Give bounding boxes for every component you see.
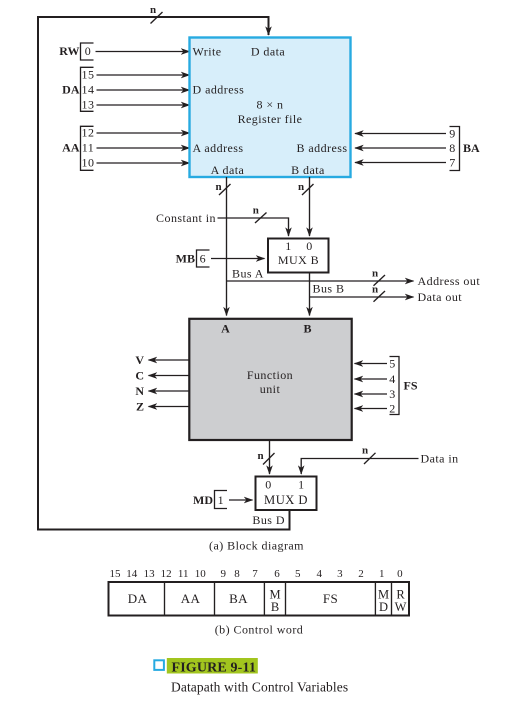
svg-text:D: D [379,600,388,614]
svg-text:8 × n: 8 × n [256,98,283,112]
svg-text:0: 0 [265,478,271,492]
wire C flag [149,375,191,377]
bracket DA bits 15-13 [81,67,94,111]
svg-text:Address out: Address out [418,274,481,288]
wire Bus B to Data out [310,296,414,298]
wire BA bit 9 to B address [355,133,446,135]
svg-text:11: 11 [82,140,94,154]
svg-text:Bus B: Bus B [313,281,345,295]
svg-text:6: 6 [274,568,280,580]
wire Data in to MUX D input 1 [301,459,418,475]
wire B data to MUX B input 0 [309,177,311,236]
svg-text:(a) Block diagram: (a) Block diagram [209,539,304,553]
svg-text:5: 5 [295,568,301,580]
svg-text:Constant in: Constant in [156,211,216,225]
wire AA bit 12 to A address [97,132,190,134]
wire Constant in to MUX B input 1 [218,218,289,236]
svg-text:n: n [150,4,156,16]
svg-text:9: 9 [221,568,227,580]
svg-text:DA: DA [62,82,80,96]
svg-text:FS: FS [404,379,418,393]
svg-text:DA: DA [128,591,148,606]
wire A data to Function unit (Bus A) [226,177,228,316]
svg-text:3: 3 [337,568,343,580]
field RW (stacked) [395,587,407,614]
bus slash n on Function unit output [257,450,274,465]
svg-text:2: 2 [389,402,395,416]
wire AA bit 11 to A address [97,147,190,149]
svg-text:14: 14 [82,82,95,96]
mux MUX B [268,239,329,273]
field MB (stacked) [269,587,280,614]
svg-text:0: 0 [306,239,312,253]
field divider MB|FS [285,582,287,616]
wire AA bit 10 to A address [97,162,190,164]
svg-text:7: 7 [449,156,455,170]
svg-text:C: C [135,369,144,383]
wire FS bit 5 [355,363,388,365]
svg-text:B: B [271,600,279,614]
svg-text:FIGURE 9-11: FIGURE 9-11 [172,660,257,675]
bus slash n on Address out [372,267,385,285]
svg-text:D data: D data [251,45,286,59]
svg-text:unit: unit [260,382,281,396]
bus slash n on Data in [362,444,376,464]
svg-text:n: n [257,450,263,462]
svg-text:1: 1 [218,493,224,507]
svg-text:Bus D: Bus D [252,513,285,527]
svg-text:6: 6 [200,252,206,266]
svg-text:5: 5 [389,357,395,371]
wire BA bit 8 to B address [355,147,446,149]
svg-text:AA: AA [181,591,201,606]
svg-text:MB: MB [176,252,195,266]
function unit block [189,319,351,440]
svg-text:15: 15 [82,67,95,81]
wire N flag [149,390,191,392]
wire MB select to MUX B [211,258,265,260]
svg-text:D address: D address [193,83,245,97]
svg-text:14: 14 [126,568,138,580]
bracket FS bits 5-2 [390,357,400,415]
svg-text:BA: BA [463,141,480,155]
svg-text:Register file: Register file [238,112,303,126]
svg-text:MUX B: MUX B [278,253,319,267]
wire Bus A to Address out [227,280,414,282]
register file block [190,38,351,178]
svg-text:n: n [372,267,378,279]
svg-text:W: W [395,600,407,614]
svg-text:Data out: Data out [418,290,463,304]
svg-text:7: 7 [252,568,258,580]
bracket BA bits 9-7 [450,127,460,171]
bracket MB bit 6 [197,250,210,267]
svg-text:1: 1 [285,239,291,253]
wire Z flag [149,406,191,408]
figure marker cyan square [154,660,164,670]
bus slash n on Data out [372,283,385,301]
svg-text:A data: A data [211,163,245,177]
bracket AA bits 12-10 [81,126,94,170]
wire MD select to MUX D [229,499,253,501]
wire FS bit 2 [355,408,388,410]
svg-text:11: 11 [178,568,189,580]
bus slash n on Constant in [253,205,267,223]
mux MUX D [256,477,317,511]
svg-text:0: 0 [397,568,403,580]
svg-text:9: 9 [449,127,455,141]
svg-text:10: 10 [195,568,207,580]
bus slash n on A data [215,181,230,195]
svg-text:MUX D: MUX D [264,493,308,507]
wire RW to Write [96,51,190,53]
wire MUX B output to Function unit B (Bus B) [309,273,311,316]
svg-text:n: n [298,181,304,193]
wire FS bit 3 [355,393,388,395]
field MD (stacked) [378,587,389,614]
control word register outline [109,582,410,616]
svg-text:2: 2 [358,568,364,580]
wire BA bit 7 to B address [355,162,446,164]
svg-text:n: n [372,283,378,295]
svg-text:1: 1 [298,478,304,492]
bracket RW bit 0 [81,43,94,60]
bus slash n on B data [298,181,314,195]
svg-text:13: 13 [82,97,95,111]
svg-text:B data: B data [291,163,325,177]
wire DA bit 14 to D address [97,89,190,91]
control word bit numbers 15..0 [110,568,404,580]
wire FS bit 4 [355,378,388,380]
svg-text:B: B [303,322,311,336]
wire V flag [149,359,191,361]
svg-text:n: n [362,444,368,456]
field divider DA|AA [164,582,166,616]
svg-text:MD: MD [193,493,213,507]
svg-text:12: 12 [82,125,95,139]
svg-text:AA: AA [62,140,80,154]
svg-text:Datapath with Control Variable: Datapath with Control Variables [171,680,348,695]
wire Bus D feedback loop to D data [38,17,290,530]
svg-text:n: n [215,181,221,193]
svg-text:V: V [135,353,144,367]
bracket MD bit 1 [215,491,228,509]
field divider BA|MB [263,582,265,616]
svg-text:B address: B address [296,141,347,155]
svg-text:4: 4 [389,372,395,386]
svg-text:n: n [253,205,259,217]
svg-text:15: 15 [110,568,122,580]
svg-text:Function: Function [247,368,293,382]
svg-text:N: N [135,384,144,398]
svg-text:4: 4 [316,568,322,580]
field divider MD|RW [391,582,393,616]
svg-text:Bus A: Bus A [232,267,264,281]
svg-text:13: 13 [144,568,156,580]
wire DA bit 15 to D address [97,74,190,76]
bus width slash n on D data feedback (top) [150,4,163,23]
svg-text:1: 1 [379,568,385,580]
svg-text:Write: Write [193,44,222,58]
svg-text:8: 8 [234,568,240,580]
wire Function unit output to MUX D input 0 [269,440,271,475]
svg-text:FS: FS [323,591,338,606]
svg-text:A address: A address [193,141,244,155]
field divider AA|BA [214,582,216,616]
svg-text:0: 0 [85,44,91,58]
svg-text:12: 12 [161,568,172,580]
svg-text:Data in: Data in [421,452,459,466]
svg-text:(b) Control word: (b) Control word [215,623,304,637]
wire DA bit 13 to D address [97,104,190,106]
field divider FS|MD [374,582,376,616]
svg-text:BA: BA [229,591,248,606]
svg-text:A: A [221,322,230,336]
svg-text:RW: RW [59,44,79,58]
figure title highlight [167,658,258,674]
svg-text:3: 3 [389,387,395,401]
svg-text:10: 10 [82,155,95,169]
svg-text:8: 8 [449,141,455,155]
svg-text:Z: Z [136,400,144,414]
